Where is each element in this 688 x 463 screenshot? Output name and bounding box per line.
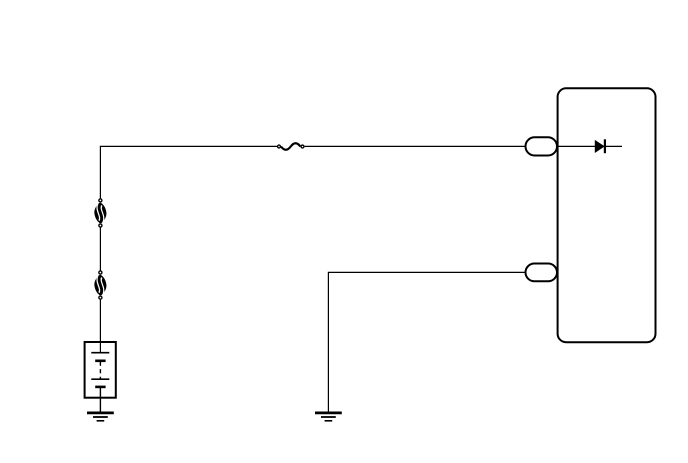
diode D1 [595,139,622,153]
twisted-wire symbol W1 [94,199,106,227]
battery dashed cell link [99,362,101,379]
connector pin 1 (top pill) [526,137,558,155]
battery G1 outline [85,342,116,398]
ground right [315,413,342,421]
battery plate long top [91,352,109,354]
battery plate short bottom [95,386,105,389]
wire fuse to connector pin 1 [305,145,526,147]
ground under battery [87,413,114,421]
connector pin 2 (bottom pill) [526,264,558,282]
wire ground run to connector pin 2 [328,272,525,413]
wire between twist symbols [99,228,101,271]
wire inside box to diode [557,145,596,147]
fuse F1 [278,143,304,150]
battery plate short top [95,359,105,362]
twisted-wire symbol W2 [94,271,106,299]
wire twist 2 to battery [99,300,101,353]
control unit box U1 [558,88,656,342]
battery plate long bottom [91,378,109,380]
wire top-left corner run (battery top to fuse) [100,146,277,198]
wire battery to ground [99,387,101,413]
